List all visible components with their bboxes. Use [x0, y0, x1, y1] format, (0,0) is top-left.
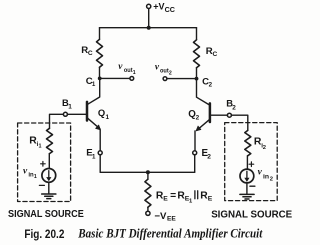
transistor Q1 emitter [88, 118, 100, 129]
wire B1 to Ri1 [50, 114, 64, 128]
wire C1 to vout1 [100, 77, 130, 79]
node C1 dot [98, 77, 102, 81]
wire base B2 to Q2 [211, 114, 228, 116]
top rail wire [100, 27, 197, 29]
resistor Ri2 [245, 130, 251, 155]
ground left [42, 194, 56, 199]
svg-text:1: 1 [34, 174, 37, 180]
resistor RC left [97, 39, 103, 67]
Q1 emitter arrowhead [96, 125, 101, 130]
plus sign left [41, 162, 46, 167]
svg-text:1: 1 [133, 70, 136, 76]
wire left branch top [99, 28, 101, 40]
parallel bars in RE equation [195, 191, 198, 199]
wire to RE [147, 172, 149, 179]
minus sign right [250, 185, 255, 187]
plus sign right [249, 162, 254, 167]
wire B2 to Ri2 [231, 115, 247, 130]
wire vin1 to ground [48, 182, 50, 194]
wire C1 down to Q1 collector [88, 78, 100, 104]
Q2 emitter arrowhead [196, 126, 201, 131]
wire right branch top [196, 28, 198, 40]
wire base B1 to Q1 [67, 113, 86, 115]
node C2 dot [195, 77, 199, 81]
junction dot VCC rail [147, 26, 151, 30]
svg-text:2: 2 [169, 71, 172, 77]
current source vin2 arrow [246, 171, 248, 178]
wire RC left to C1 [99, 67, 101, 78]
wire Ri1 to source vin1 [48, 154, 50, 169]
ground right [240, 194, 254, 199]
wire E2 down [194, 155, 196, 173]
terminal B1 [63, 112, 67, 116]
terminal -VEE [146, 211, 150, 215]
dashed box signal source left [18, 123, 71, 202]
wire emitter bus [100, 171, 195, 173]
wire Ri2 to source vin2 [246, 156, 248, 170]
transistor Q1 bar [86, 102, 89, 121]
current source vin1 circle [42, 169, 56, 183]
transistor Q2 bar [209, 103, 212, 122]
wire RE to -VEE [147, 207, 149, 211]
svg-text:SIGNAL SOURCE: SIGNAL SOURCE [211, 210, 292, 221]
wire vin2 to ground [246, 183, 248, 194]
current source vin2 circle [240, 169, 254, 183]
wire RC right to C2 [196, 68, 198, 79]
resistor RE [145, 179, 151, 207]
dashed box signal source right [225, 123, 278, 201]
+VCC terminal [147, 4, 151, 8]
svg-text:in: in [263, 173, 269, 180]
terminal vout2 [163, 77, 167, 81]
junction dot RE [146, 170, 150, 174]
wire C2 to vout2 [167, 78, 197, 80]
terminal E1 [98, 151, 102, 155]
current source vin1 arrow [48, 171, 50, 178]
resistor RC right [194, 40, 200, 68]
wire C2 down to Q2 collector [197, 79, 209, 105]
minus sign left [39, 184, 44, 186]
svg-text:Fig. 20.2: Fig. 20.2 [24, 227, 64, 241]
transistor Q2 emitter [197, 120, 210, 131]
wire Q2 emitter to E2 [194, 131, 196, 151]
svg-text:2: 2 [270, 177, 273, 183]
wire VCC stem [148, 9, 150, 28]
svg-text:SIGNAL SOURCE: SIGNAL SOURCE [8, 209, 84, 220]
terminal E2 [193, 151, 197, 155]
svg-text:Basic BJT Differential Amplifi: Basic BJT Differential Amplifier Circuit [77, 227, 262, 241]
resistor Ri1 [47, 128, 53, 153]
wire E1 down [99, 155, 101, 173]
wire Q1 emitter to E1 [99, 130, 101, 151]
terminal B2 [227, 113, 231, 117]
terminal vout1 [130, 77, 134, 81]
